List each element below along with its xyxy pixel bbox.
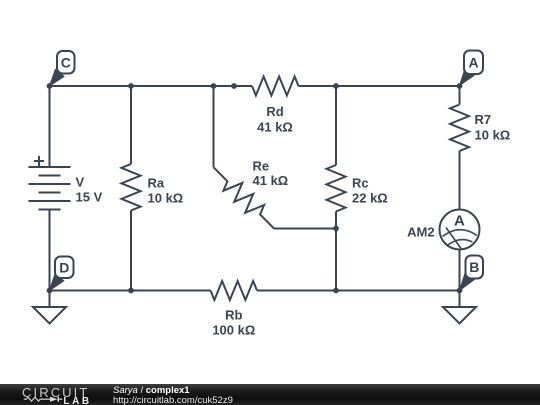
label Rd <box>266 104 283 119</box>
wire top rail Rd to A <box>299 85 460 87</box>
label Rc <box>352 176 369 191</box>
resistor Rc <box>327 165 346 212</box>
junction dot A <box>457 83 463 89</box>
svg-text:41 kΩ: 41 kΩ <box>253 173 289 188</box>
wire Rc to bottom <box>335 212 337 291</box>
svg-text:10 kΩ: 10 kΩ <box>475 128 511 143</box>
junction dot Rc top <box>333 83 339 89</box>
wire C to battery <box>49 86 51 167</box>
label R7 <box>475 112 492 127</box>
junction dot C <box>47 83 53 89</box>
wire top to Re <box>213 86 215 167</box>
svg-text:22 kΩ: 22 kΩ <box>352 191 388 206</box>
resistor Ra <box>122 164 141 211</box>
node A <box>460 51 484 86</box>
label Rb <box>225 308 242 323</box>
wire battery to D <box>49 210 51 291</box>
svg-text:Rb: Rb <box>225 308 242 323</box>
svg-text:R7: R7 <box>475 112 492 127</box>
resistor Rb <box>211 281 258 300</box>
ground right <box>443 291 476 324</box>
svg-text:B: B <box>469 259 479 275</box>
junction dot top mid <box>231 83 237 89</box>
node D <box>50 257 74 291</box>
svg-text:D: D <box>59 259 69 275</box>
footer bar <box>0 384 540 405</box>
svg-text:10 kΩ: 10 kΩ <box>148 191 184 206</box>
wire Ra to bottom <box>130 211 132 291</box>
label AM2 <box>407 224 434 239</box>
CircuitLab logo CIRCUIT <box>22 385 89 400</box>
value Rb 100 k&#937; <box>212 322 255 337</box>
ground left <box>33 291 66 324</box>
resistor Re <box>214 167 275 228</box>
wire top rail C to Rd <box>50 85 253 87</box>
CircuitLab logo symbol and LAB <box>20 394 96 405</box>
svg-text:15 V: 15 V <box>76 190 103 205</box>
svg-text:Rc: Rc <box>352 176 369 191</box>
junction dot Re-Rc <box>333 226 339 232</box>
node B <box>460 256 484 291</box>
svg-text:Rd: Rd <box>266 104 283 119</box>
wire A to R7 <box>459 86 461 105</box>
value Re 41 k&#937; <box>253 173 289 188</box>
wire top to Rc <box>335 86 337 165</box>
junction dot Ra bottom <box>128 288 134 294</box>
junction dot Rc bottom <box>333 288 339 294</box>
svg-text:A: A <box>468 54 478 70</box>
resistor R7 <box>450 105 469 152</box>
value Rc 22 k&#937; <box>352 191 388 206</box>
svg-text:C: C <box>61 54 71 70</box>
svg-text:AM2: AM2 <box>407 224 434 239</box>
svg-text:Re: Re <box>253 158 270 173</box>
value R7 10 k&#937; <box>475 128 511 143</box>
footer url <box>113 395 233 405</box>
label Ra <box>148 176 165 191</box>
value Ra 10 k&#937; <box>148 191 184 206</box>
ammeter AM2 <box>440 210 480 250</box>
svg-text:41 kΩ: 41 kΩ <box>257 120 293 135</box>
battery V <box>29 167 71 210</box>
value Rd 41 k&#937; <box>257 120 293 135</box>
wire AM2 to B <box>459 250 461 291</box>
footer title Sarya / complex1 <box>113 385 190 396</box>
label V <box>76 175 85 190</box>
wire Re to Rc branch <box>274 228 336 230</box>
junction dot D <box>47 288 53 294</box>
wire top to Ra <box>130 86 132 164</box>
junction dot Ra top <box>128 83 134 89</box>
label Re <box>253 158 270 173</box>
junction dot B <box>457 288 463 294</box>
svg-text:V: V <box>76 175 85 190</box>
wire R7 to AM2 <box>459 151 461 210</box>
junction dot Re top <box>211 83 217 89</box>
node C <box>50 51 75 86</box>
resistor Rd <box>252 77 299 96</box>
svg-text:A: A <box>454 213 465 230</box>
svg-text:LAB: LAB <box>63 396 91 405</box>
svg-text:100 kΩ: 100 kΩ <box>212 322 255 337</box>
battery plus sign <box>34 156 44 166</box>
value V 15 V <box>76 190 103 205</box>
svg-text:Ra: Ra <box>148 176 165 191</box>
wire bottom rail Rb to B <box>257 290 460 292</box>
wire bottom rail D to Rb <box>50 290 211 292</box>
